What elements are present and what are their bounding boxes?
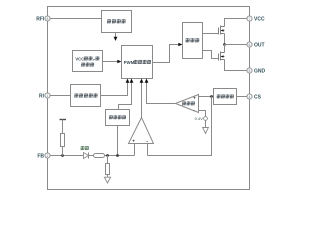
wire comparator plus input to LEB	[199, 96, 214, 98]
wire oscillator to PWM arrow 1	[101, 81, 128, 96]
wire driver to Q2 gate (stepped)	[203, 51, 219, 59]
wire comparator minus input to reference	[199, 111, 206, 117]
block U9 gate driver (软驱动)	[183, 23, 203, 59]
wire OUT node to OUT pin	[225, 44, 248, 46]
wire error amp output to PWM arrow 3	[141, 81, 143, 118]
svg-text:+: +	[193, 96, 196, 101]
block U3 PWM logic control (PWM逻辑控制)	[122, 46, 153, 79]
wire Q2 source to GND rail and GND pin	[225, 60, 248, 71]
pin 6 OUT	[247, 42, 252, 47]
pin 1 RI	[45, 93, 50, 98]
wire error amp plus input stub to FB net	[134, 144, 136, 156]
node OLP junction	[116, 154, 119, 157]
svg-text:PWM: PWM	[124, 60, 135, 65]
node FB pull-up junction	[61, 154, 64, 157]
block U4 frequency-jitter oscillator (抖频振荡器)	[71, 85, 101, 107]
ground below R3 (open arrow)	[104, 177, 110, 183]
svg-text:6: 6	[249, 43, 251, 47]
wire driver to Q1 gate	[203, 33, 219, 35]
resistor R2 in FB path	[94, 154, 105, 158]
ground below reference (open arrow)	[205, 120, 207, 127]
op-amp U6 error amplifier	[129, 118, 154, 144]
block U5 overload protection (过载保护)	[106, 110, 130, 126]
wire LEB to CS pin	[237, 96, 248, 98]
wire comparator output to PWM arrow 4	[147, 81, 176, 104]
transistor Q1 upper NMOS	[219, 26, 225, 35]
block U2 VCC over/under-voltage protection (VCC过压、欠压保护)	[73, 51, 103, 72]
pin 2 FB	[45, 153, 50, 158]
wire linear-regulator output down-arrow	[115, 33, 117, 38]
wire resistor R1 to FB net	[62, 147, 64, 156]
wire Q1 drain to VCC rail and VCC pin	[225, 19, 248, 27]
wire rail tick to resistor R1	[62, 120, 64, 134]
svg-text:VCC: VCC	[254, 16, 265, 22]
pin 5 GND	[247, 68, 252, 73]
reference source V1 0.4V	[204, 117, 208, 121]
node CS-sample junction	[210, 95, 213, 98]
wire zener to resistor R2	[89, 155, 94, 157]
svg-text:8: 8	[47, 17, 49, 21]
wire error amp minus input stub	[147, 144, 149, 156]
svg-text:+: +	[132, 139, 135, 144]
pin 8 RFI	[45, 16, 50, 21]
svg-text:4: 4	[249, 95, 251, 99]
wire OLP to PWM arrow 2	[119, 81, 132, 110]
pin 4 CS	[247, 94, 252, 99]
svg-text:GND: GND	[254, 68, 266, 74]
wire OLP down to FB net	[117, 126, 119, 156]
pin 7 VCC	[247, 16, 252, 21]
block U8 leading edge blanking (前沿消隐)	[214, 89, 237, 105]
node divider junction	[106, 154, 109, 157]
svg-text:0.4V: 0.4V	[195, 116, 204, 121]
wire FB pin to zener	[50, 155, 84, 157]
wire CS-sample down and across to error amp minus	[148, 97, 212, 156]
svg-text:5: 5	[249, 69, 251, 73]
diode D1 zener (稳压)	[81, 146, 89, 158]
IC boundary box	[48, 7, 250, 190]
svg-text:FB: FB	[37, 153, 44, 159]
wire OVP to PWM with arrow	[103, 61, 119, 63]
svg-text:OUT: OUT	[254, 42, 265, 48]
wire RI pin to oscillator	[50, 95, 71, 97]
reference rail tick above pull-up resistor	[60, 119, 67, 121]
block U1 linear power supply (线性电源)	[102, 11, 132, 33]
svg-text:1: 1	[47, 94, 49, 98]
resistor R1 FB pull-up	[61, 134, 65, 147]
node OUT junction	[223, 43, 226, 46]
op-amp U7 current comparator (比较器)	[176, 95, 199, 114]
svg-text:2: 2	[47, 154, 49, 158]
resistor R3 divider to ground	[107, 156, 109, 164]
wire R2 to error amp plus input	[105, 155, 135, 157]
wire RFI pin to linear-regulator	[50, 18, 102, 20]
svg-text:RFI: RFI	[36, 16, 45, 22]
wire Q2 drain to OUT node	[224, 45, 226, 53]
svg-text:7: 7	[249, 17, 251, 21]
wire Q1 source to OUT node	[224, 34, 226, 45]
transistor Q2 lower NMOS	[219, 52, 225, 61]
wire PWM to gate driver with arrow	[153, 45, 180, 63]
svg-text:VCC: VCC	[75, 56, 84, 61]
svg-text:CS: CS	[254, 94, 262, 100]
svg-text:RI: RI	[39, 93, 45, 99]
